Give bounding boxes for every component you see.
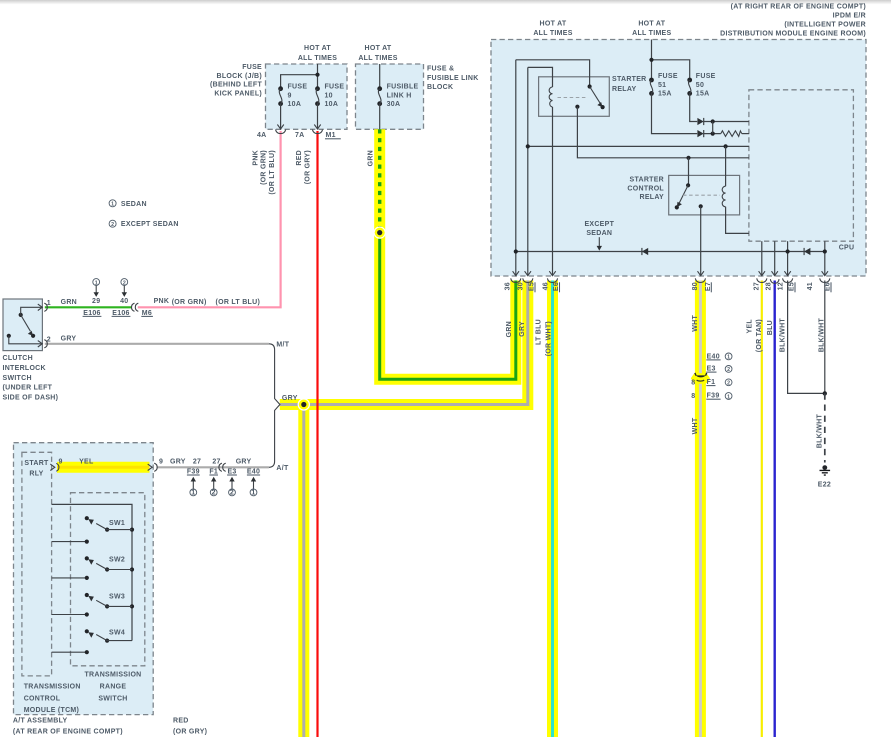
wire CPU pin 41	[824, 241, 826, 275]
label starter control relay	[627, 177, 664, 202]
wire feed fusible link H	[379, 64, 381, 89]
svg-text:(UNDER LEFT: (UNDER LEFT	[3, 385, 53, 392]
svg-text:YEL: YEL	[747, 319, 754, 334]
svg-text:12: 12	[778, 282, 785, 290]
starter control relay box	[669, 175, 740, 215]
ground E22	[820, 465, 831, 475]
svg-text:30A: 30A	[387, 101, 401, 108]
label hot at all times fusible link	[358, 45, 397, 62]
wire resistor to CPU	[742, 133, 749, 135]
wire WHT halo	[695, 281, 706, 737]
arrow pin 46	[549, 271, 555, 276]
svg-text:LT BLU: LT BLU	[536, 319, 543, 345]
svg-text:(OR GRY): (OR GRY)	[173, 728, 207, 735]
arrow pin 28	[772, 271, 778, 276]
svg-text:SIDE OF DASH): SIDE OF DASH)	[3, 395, 59, 402]
svg-text:CONTROL: CONTROL	[24, 695, 61, 702]
svg-text:YEL: YEL	[79, 458, 94, 465]
svg-text:FUSE: FUSE	[325, 84, 345, 91]
WHT inline connector	[691, 374, 710, 384]
svg-text:1: 1	[251, 490, 255, 497]
wire fusible link out	[379, 104, 381, 130]
svg-text:27: 27	[754, 282, 761, 290]
svg-text:HOT AT: HOT AT	[540, 21, 567, 28]
label hot at all times J/B	[298, 45, 337, 62]
arrow pin 41	[822, 271, 828, 276]
wire PNK	[138, 131, 281, 307]
svg-text:F1: F1	[209, 468, 218, 475]
svg-text:2: 2	[727, 381, 730, 387]
svg-text:FUSE &: FUSE &	[427, 66, 454, 73]
svg-text:SW2: SW2	[109, 557, 125, 564]
wire YEL halo (TCM start rly)	[57, 462, 150, 473]
SW2	[85, 556, 134, 580]
wire control relay out pin 80	[700, 206, 702, 275]
fuse 51	[649, 78, 654, 96]
wire BLK/WHT pin 12	[788, 281, 825, 394]
wire GRY core	[280, 281, 528, 405]
wire GRY A/T row	[157, 466, 269, 468]
svg-text:SWITCH: SWITCH	[3, 375, 32, 382]
circle 2 WHT column	[725, 366, 732, 373]
switch internals	[7, 307, 42, 344]
svg-text:KICK PANEL): KICK PANEL)	[214, 90, 262, 97]
svg-text:RELAY: RELAY	[612, 86, 637, 93]
svg-text:ALL TIMES: ALL TIMES	[298, 55, 337, 62]
junction	[724, 144, 728, 148]
svg-text:FUSIBLE: FUSIBLE	[387, 84, 419, 91]
label fuse 51	[658, 73, 678, 98]
starter relay coil	[549, 87, 552, 107]
svg-text:E106: E106	[112, 310, 129, 317]
svg-text:46: 46	[543, 282, 550, 290]
svg-text:27: 27	[212, 458, 220, 465]
svg-text:BLOCK: BLOCK	[427, 84, 453, 91]
wire CPU line	[528, 145, 749, 147]
legend circle 2 except sedan	[109, 220, 116, 227]
wire fuse 50 to diode	[690, 93, 698, 121]
arrow pin 12	[784, 271, 790, 276]
junction BLK/WHT	[823, 391, 827, 395]
fuse 9	[278, 86, 283, 106]
svg-text:(AT RIGHT REAR OF ENGINE COMPT: (AT RIGHT REAR OF ENGINE COMPT)	[731, 4, 866, 11]
junction GRN dashed/solid	[374, 226, 386, 238]
arrow fuse 9 out	[277, 125, 283, 130]
arrow pin 36	[513, 271, 519, 276]
wire LT BLU core	[551, 281, 554, 737]
wire coil feed from CPU line	[725, 146, 727, 186]
svg-text:2: 2	[47, 336, 51, 343]
svg-text:29: 29	[92, 298, 100, 305]
wire diode D1 to CPU	[704, 121, 749, 123]
label clutch interlock switch	[3, 355, 59, 402]
svg-text:1: 1	[111, 202, 114, 208]
circle 2 over connector 40	[121, 279, 128, 286]
arrow pin 27	[759, 271, 765, 276]
svg-text:CLUTCH: CLUTCH	[3, 355, 33, 362]
wire GRY core vertical	[302, 405, 305, 737]
svg-text:(BEHIND LEFT: (BEHIND LEFT	[210, 82, 262, 89]
page top shadow	[0, 0, 891, 5]
svg-text:F39: F39	[187, 468, 200, 475]
svg-text:HOT AT: HOT AT	[638, 21, 665, 28]
starter control relay switch	[675, 183, 703, 209]
connector 4A cup	[276, 130, 286, 134]
TCM box	[22, 452, 52, 676]
arrow pin 2	[38, 341, 43, 347]
svg-text:10A: 10A	[325, 101, 339, 108]
wire BLK/WHT pin 41	[824, 281, 826, 394]
svg-text:RANGE: RANGE	[100, 683, 127, 690]
title IPDM E/R	[720, 4, 866, 38]
diode D1	[697, 118, 703, 125]
connector 7A/M1 cup	[312, 130, 322, 134]
wire WHT core	[699, 281, 702, 737]
svg-text:(INTELLIGENT POWER: (INTELLIGENT POWER	[784, 22, 866, 29]
svg-text:GRN: GRN	[506, 321, 513, 337]
svg-text:50: 50	[696, 82, 704, 89]
IPDM E/R box	[491, 40, 866, 277]
junction	[526, 144, 530, 148]
svg-text:F39: F39	[707, 393, 720, 400]
wire starter relay coil feed	[528, 67, 553, 87]
svg-text:FUSIBLE LINK: FUSIBLE LINK	[427, 75, 479, 82]
clutch interlock switch box	[3, 299, 42, 351]
wire GRN halo (fusible link H to IPDM pin 36)	[380, 129, 516, 379]
svg-text:41: 41	[807, 282, 814, 290]
rotated pin labels	[505, 282, 832, 292]
label TCM	[24, 683, 81, 714]
diode D3	[642, 248, 648, 255]
svg-text:8: 8	[691, 379, 695, 386]
svg-text:SW1: SW1	[109, 520, 125, 527]
svg-text:STARTER: STARTER	[630, 177, 665, 184]
svg-text:(OR GRN): (OR GRN)	[172, 299, 207, 306]
svg-text:7A: 7A	[295, 132, 305, 139]
svg-text:(OR WHT): (OR WHT)	[546, 321, 553, 356]
wire coil to CPU	[726, 207, 749, 234]
circle 1b WHT column	[725, 393, 732, 400]
fusible link H	[377, 86, 382, 106]
svg-text:BLK/WHT: BLK/WHT	[819, 318, 826, 353]
connector start rly pin 9	[50, 464, 55, 470]
svg-text:E3: E3	[227, 468, 236, 475]
svg-text:2: 2	[727, 367, 730, 373]
svg-text:FUSE: FUSE	[658, 73, 678, 80]
svg-text:SEDAN: SEDAN	[121, 201, 147, 208]
arrow except sedan	[598, 237, 600, 248]
wire pin 36 vertical	[515, 60, 517, 275]
svg-text:A/T ASSEMBLY: A/T ASSEMBLY	[13, 717, 68, 724]
label fuse and fusible link block	[427, 66, 479, 91]
CPU box	[749, 90, 854, 241]
svg-text:M6: M6	[142, 310, 152, 317]
svg-text:40: 40	[120, 298, 128, 305]
connector M6 arcs	[131, 303, 134, 311]
connector E3/E40 arcs	[219, 463, 222, 471]
svg-text:M1: M1	[326, 132, 336, 139]
wire BLU	[774, 281, 776, 737]
svg-text:51: 51	[658, 82, 666, 89]
svg-text:4A: 4A	[257, 132, 267, 139]
brace M/T A/T	[269, 344, 280, 468]
wire CPU pin 27	[761, 241, 763, 275]
svg-text:STARTER: STARTER	[612, 76, 647, 83]
junction	[711, 132, 715, 136]
svg-text:9: 9	[159, 458, 163, 465]
label fuse block J/B	[210, 64, 262, 97]
svg-text:ALL TIMES: ALL TIMES	[358, 55, 397, 62]
digits in circles F row	[191, 490, 255, 497]
svg-text:GRY: GRY	[61, 335, 77, 342]
junction	[823, 249, 827, 253]
svg-text:FUSE: FUSE	[288, 84, 308, 91]
svg-text:10: 10	[325, 92, 333, 99]
svg-text:15A: 15A	[658, 91, 672, 98]
svg-text:(OR TAN): (OR TAN)	[756, 319, 763, 352]
transmission range switch box	[71, 493, 145, 666]
arrow pin 30	[525, 271, 531, 276]
fuse and fusible link block box	[356, 64, 424, 129]
svg-text:M/T: M/T	[276, 341, 289, 348]
svg-text:BLOCK (J/B): BLOCK (J/B)	[217, 73, 262, 80]
wire RED	[316, 131, 318, 737]
svg-text:SWITCH: SWITCH	[98, 695, 127, 702]
svg-text:EXCEPT SEDAN: EXCEPT SEDAN	[121, 221, 179, 228]
svg-text:10A: 10A	[288, 101, 302, 108]
svg-text:1: 1	[47, 300, 51, 307]
fuse 10	[315, 86, 320, 106]
svg-text:(OR LT BLU): (OR LT BLU)	[269, 150, 276, 195]
arrow from circle 2	[123, 286, 125, 293]
range switch stubs	[52, 542, 87, 653]
wire GRY halo vertical to bottom	[298, 405, 309, 737]
wire BLK/WHT dashed to ground	[824, 393, 826, 462]
svg-text:(OR LT BLU): (OR LT BLU)	[216, 299, 261, 306]
svg-text:RED: RED	[173, 717, 189, 724]
svg-text:2: 2	[111, 222, 114, 228]
label transmission range switch	[84, 672, 141, 703]
svg-text:36: 36	[505, 282, 512, 290]
wire starter relay out	[577, 107, 749, 158]
label fusible link H	[387, 84, 419, 109]
svg-text:8: 8	[691, 393, 695, 400]
wire fuse 10 out	[317, 104, 319, 129]
svg-text:FUSE: FUSE	[696, 73, 716, 80]
label fuse 50	[696, 73, 716, 98]
svg-text:PNK: PNK	[154, 298, 170, 305]
wire fuse 9 out	[280, 104, 282, 129]
svg-text:BLK/WHT: BLK/WHT	[817, 414, 824, 449]
fuse block (J/B) box	[266, 64, 348, 129]
svg-text:A/T: A/T	[276, 465, 289, 472]
starter relay mech link	[558, 97, 588, 99]
svg-text:(OR GRN): (OR GRN)	[261, 150, 268, 185]
label hot at all times IPDM left	[533, 21, 572, 37]
svg-text:EXCEPT: EXCEPT	[584, 221, 614, 228]
wire YEL (OR TAN)	[761, 281, 763, 737]
control relay coil	[722, 186, 725, 207]
junction	[686, 156, 690, 160]
arrow from circle 1	[95, 286, 97, 293]
svg-text:GRY: GRY	[282, 395, 298, 402]
wire feed fuse 10	[281, 64, 318, 89]
svg-text:SW4: SW4	[109, 630, 125, 637]
wire CPU pin 28	[774, 241, 776, 275]
svg-text:2: 2	[212, 490, 216, 497]
control relay mech link	[683, 194, 720, 196]
wire GRY halo (brace to IPDM pin 30 and down)	[280, 281, 528, 405]
wire coil to pin 46	[552, 107, 554, 275]
junction	[649, 58, 653, 62]
svg-text:E40: E40	[707, 353, 720, 360]
svg-text:DISTRIBUTION MODULE ENGINE ROO: DISTRIBUTION MODULE ENGINE ROOM)	[720, 31, 866, 38]
label RED OR GRY bottom	[173, 717, 207, 735]
svg-text:2: 2	[230, 490, 234, 497]
svg-text:ALL TIMES: ALL TIMES	[632, 30, 671, 37]
svg-text:1: 1	[727, 355, 730, 361]
starter relay switch	[575, 84, 604, 109]
wire YEL core	[57, 466, 150, 469]
svg-text:GRN: GRN	[368, 150, 375, 166]
svg-text:E22: E22	[818, 482, 831, 489]
svg-text:9: 9	[59, 458, 63, 465]
svg-text:RELAY: RELAY	[640, 194, 665, 201]
wire diode link	[712, 122, 714, 134]
svg-text:FUSE: FUSE	[242, 64, 262, 71]
label fuse 10	[325, 84, 345, 109]
svg-text:GRY: GRY	[519, 321, 526, 337]
rotated wire labels	[253, 150, 826, 448]
svg-text:MODULE (TCM): MODULE (TCM)	[24, 707, 79, 714]
label fuse 9	[288, 84, 308, 109]
junction	[786, 249, 790, 253]
svg-text:TRANSMISSION: TRANSMISSION	[84, 672, 141, 679]
arrow pin 1	[38, 304, 43, 310]
wire fuse 51 to diode	[652, 93, 698, 133]
svg-text:1: 1	[95, 280, 98, 286]
junction	[514, 249, 518, 253]
svg-text:E40: E40	[247, 468, 260, 475]
svg-text:BLK/WHT: BLK/WHT	[779, 318, 786, 353]
wire except sedan	[516, 251, 825, 253]
SW4	[85, 629, 132, 654]
svg-text:GRY: GRY	[236, 458, 252, 465]
legend circle 1 sedan	[109, 200, 116, 207]
fuse 50	[687, 78, 692, 96]
svg-text:PNK: PNK	[253, 150, 260, 166]
svg-text:START: START	[24, 460, 49, 467]
junction	[711, 119, 715, 123]
arrows and circles F39 F1 E3 E40	[190, 477, 257, 496]
label start rly	[24, 460, 49, 477]
A/T assembly box	[14, 443, 154, 715]
svg-text:E3: E3	[707, 366, 716, 373]
label A/T assembly	[13, 717, 123, 735]
svg-text:(OR GRY): (OR GRY)	[304, 150, 311, 184]
wire GRN core	[380, 233, 516, 380]
svg-text:SW3: SW3	[109, 593, 125, 600]
svg-text:30: 30	[518, 282, 525, 290]
wire diode D2 to resistor	[704, 133, 721, 135]
diode D2	[697, 130, 703, 137]
wire CPU pin 12	[787, 241, 789, 275]
svg-text:WHT: WHT	[692, 315, 699, 332]
svg-text:28: 28	[766, 282, 773, 290]
junction	[315, 73, 319, 77]
svg-text:F1: F1	[707, 379, 716, 386]
arrow pin 80	[698, 271, 704, 276]
svg-text:E106: E106	[83, 310, 100, 317]
svg-text:TRANSMISSION: TRANSMISSION	[24, 683, 81, 690]
label hot at all times IPDM right	[632, 21, 671, 37]
svg-text:CONTROL: CONTROL	[627, 185, 664, 192]
circle 1 over connector 29	[93, 279, 100, 286]
svg-text:ALL TIMES: ALL TIMES	[533, 30, 572, 37]
wire hot feed to fuses	[652, 40, 690, 81]
junction GRY	[298, 398, 310, 410]
svg-text:IPDM E/R: IPDM E/R	[833, 13, 866, 20]
circle 2b WHT column	[725, 379, 732, 386]
svg-text:15A: 15A	[696, 91, 710, 98]
wire GRN clutch pin 1	[45, 306, 132, 308]
circle 1 WHT column	[725, 353, 732, 360]
svg-text:RLY: RLY	[29, 470, 43, 477]
wire GRY clutch pin 2	[45, 343, 269, 345]
svg-text:WHT: WHT	[692, 417, 699, 434]
starter relay box	[539, 77, 610, 117]
diode D4	[804, 248, 810, 255]
arrow fuse 10 out	[314, 125, 320, 130]
connector pin 2	[44, 340, 47, 348]
SW3	[85, 593, 134, 617]
svg-text:27: 27	[193, 458, 201, 465]
range switch bus	[52, 504, 132, 640]
svg-text:(AT REAR OF ENGINE COMPT): (AT REAR OF ENGINE COMPT)	[13, 728, 123, 735]
resistor	[721, 131, 742, 137]
svg-text:80: 80	[692, 282, 699, 290]
connector A/T 9	[154, 463, 157, 471]
svg-text:HOT AT: HOT AT	[304, 45, 331, 52]
svg-text:RED: RED	[296, 150, 303, 166]
svg-text:INTERLOCK: INTERLOCK	[3, 365, 46, 372]
arrow A/T 9	[148, 464, 153, 470]
svg-text:CPU: CPU	[839, 245, 855, 252]
svg-text:2: 2	[123, 280, 126, 286]
svg-text:9: 9	[288, 92, 292, 99]
svg-text:HOT AT: HOT AT	[365, 45, 392, 52]
wire control relay switch feed	[688, 158, 690, 186]
wire pin 30 vertical	[527, 67, 529, 275]
svg-text:1: 1	[191, 490, 195, 497]
wire LT BLU halo	[547, 281, 558, 737]
svg-text:SEDAN: SEDAN	[586, 230, 612, 237]
svg-text:GRY: GRY	[170, 458, 186, 465]
wire starter relay top feed	[516, 60, 590, 87]
IPDM pin cups	[511, 278, 521, 282]
label except sedan	[584, 221, 614, 237]
svg-text:1: 1	[727, 394, 730, 400]
wire GRN dashed core	[378, 129, 381, 232]
svg-text:LINK H: LINK H	[387, 92, 412, 99]
svg-text:BLU: BLU	[767, 320, 774, 335]
connector pin 1	[44, 303, 47, 311]
SW1	[85, 516, 134, 544]
label starter relay	[612, 76, 647, 93]
svg-text:GRN: GRN	[61, 299, 77, 306]
